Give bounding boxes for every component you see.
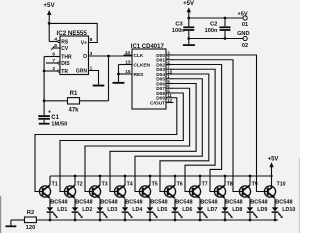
- LED LD9: [247, 207, 268, 218]
- svg-text:LD9: LD9: [257, 207, 267, 213]
- svg-text:2: 2: [52, 66, 55, 72]
- wire LD9 cathode to rail: [249, 213, 251, 220]
- junction LD9/rail: [249, 219, 252, 222]
- svg-text:R1: R1: [70, 91, 78, 97]
- svg-text:7: 7: [52, 58, 55, 64]
- ground (C1): [39, 123, 50, 125]
- pin 14 CLK: [124, 50, 144, 59]
- transistor T10 BC548: [264, 176, 292, 205]
- wire D07 to T3 base: [85, 88, 190, 191]
- wire T1 emitter to LED: [49, 198, 51, 207]
- transistor T8 BC548: [214, 176, 242, 205]
- wire LD7 cathode to rail: [199, 213, 201, 220]
- svg-text:LD6: LD6: [182, 207, 192, 213]
- junction LD4/rail: [124, 219, 127, 222]
- transistor T2 BC548: [64, 176, 92, 205]
- wire T10 emitter to LED: [274, 198, 276, 207]
- wire D04 to T6 base: [160, 74, 209, 192]
- svg-text:BC548: BC548: [75, 199, 92, 205]
- svg-text:LD1: LD1: [57, 207, 67, 213]
- svg-text:120: 120: [26, 225, 36, 231]
- wire CLKEN/RES to ground: [118, 65, 120, 82]
- LED LD1: [47, 207, 68, 218]
- svg-text:RS: RS: [61, 39, 69, 45]
- pin 4 RS: [54, 37, 69, 46]
- wire D01 to T9 base: [174, 60, 243, 192]
- pin 3 D00: [156, 50, 173, 59]
- svg-text:BC548: BC548: [150, 199, 167, 205]
- pin 4 D02: [156, 60, 173, 69]
- svg-text:100n: 100n: [205, 28, 218, 34]
- wire LD1 cathode to rail: [49, 213, 51, 220]
- resistor R1 47k: [44, 91, 108, 114]
- wire +5V down to RS pin4: [49, 23, 58, 41]
- wire timing node vertical: [43, 57, 45, 116]
- svg-text:+5V: +5V: [183, 1, 194, 7]
- svg-text:3: 3: [90, 51, 93, 57]
- svg-text:BC548: BC548: [50, 199, 67, 205]
- wire +5V collector rail: [50, 175, 272, 177]
- wire T3 emitter to LED: [99, 198, 101, 207]
- LED LD8: [222, 207, 243, 218]
- junction T8 collector: [224, 175, 227, 178]
- svg-text:C2: C2: [210, 22, 217, 28]
- svg-text:LD7: LD7: [207, 207, 217, 213]
- ground (R2): [6, 220, 17, 227]
- pin 1 GRN: [76, 66, 99, 85]
- pin 6 THR: [44, 52, 72, 61]
- wire T9 emitter to LED: [249, 198, 251, 207]
- junction T9 collector: [249, 175, 252, 178]
- svg-text:V+: V+: [81, 41, 87, 47]
- connector O2 GND: [237, 31, 249, 49]
- transistor T7 BC548: [189, 176, 217, 205]
- svg-text:5: 5: [54, 43, 57, 49]
- pin 7 DIS: [46, 58, 70, 67]
- scan artifact left edge: [0, 196, 2, 233]
- junction rail/C3: [187, 17, 190, 20]
- pin 6 D07: [156, 84, 173, 93]
- svg-text:LD3: LD3: [107, 207, 117, 213]
- svg-text:TR: TR: [61, 69, 68, 75]
- pin 7 D03: [156, 65, 173, 74]
- svg-text:LD10: LD10: [282, 207, 295, 213]
- pin 15 RES: [119, 69, 145, 78]
- junction T6 collector: [174, 175, 177, 178]
- transistor T3 BC548: [89, 176, 117, 205]
- wire +5V rail to O1: [189, 17, 243, 19]
- svg-text:8: 8: [90, 37, 93, 43]
- wire LD6 cathode to rail: [174, 213, 176, 220]
- svg-text:LD2: LD2: [82, 207, 92, 213]
- svg-text:+5V: +5V: [268, 156, 279, 162]
- power +5V (right): [268, 156, 279, 176]
- junction LD3/rail: [99, 219, 102, 222]
- junction R1 node: [43, 99, 46, 102]
- transistor T4 BC548: [114, 176, 142, 205]
- svg-text:LD4: LD4: [132, 207, 142, 213]
- svg-text:100n: 100n: [172, 28, 185, 34]
- svg-text:CV: CV: [61, 46, 69, 52]
- wire +5V to V+ pin8: [49, 23, 97, 42]
- power +5V (top left): [43, 2, 55, 23]
- pin 10 D04: [156, 69, 173, 78]
- transistor T9 BC548: [239, 176, 267, 205]
- pin 5 CV (open, slash mark): [51, 43, 69, 52]
- svg-text:C1: C1: [51, 115, 59, 121]
- junction T2 collector: [74, 175, 77, 178]
- svg-text:02: 02: [242, 43, 248, 49]
- junction rail/C3 bottom: [187, 37, 190, 40]
- svg-text:12: 12: [167, 98, 172, 103]
- LED LD10: [272, 207, 296, 218]
- wire LD10 cathode to rail: [274, 213, 276, 220]
- junction output/R1/CLK: [107, 55, 110, 58]
- wire R1 to output pin3: [108, 56, 110, 101]
- svg-text:T1: T1: [52, 181, 58, 187]
- svg-text:T4: T4: [127, 181, 133, 187]
- wire T5 emitter to LED: [149, 198, 151, 207]
- wire LD3 cathode to rail: [99, 213, 101, 220]
- svg-text:BC548: BC548: [200, 199, 217, 205]
- junction LD2/rail: [74, 219, 77, 222]
- junction rail/C2 bottom: [224, 37, 227, 40]
- svg-text:15: 15: [125, 69, 131, 74]
- svg-text:O: O: [83, 54, 87, 60]
- junction LD6/rail: [174, 219, 177, 222]
- junction +5V node: [48, 22, 51, 25]
- pin 8 V+: [81, 37, 93, 46]
- LED LD2: [72, 207, 93, 218]
- LED LD5: [147, 207, 168, 218]
- wire T7 emitter to LED: [199, 198, 201, 207]
- svg-text:4: 4: [54, 37, 57, 43]
- wire D02 to T8 base: [174, 65, 222, 192]
- wire T8 emitter to LED: [224, 198, 226, 207]
- LED LD7: [197, 207, 218, 218]
- svg-text:01: 01: [242, 22, 248, 28]
- transistor T5 BC548: [139, 176, 167, 205]
- wire LD2 cathode to rail: [74, 213, 76, 220]
- junction LD5/rail: [149, 219, 152, 222]
- ground (4017 enable/reset): [113, 82, 125, 84]
- wire T4 emitter to LED: [124, 198, 126, 207]
- wire LD4 cathode to rail: [124, 213, 126, 220]
- wire D03 to T7 base: [174, 69, 216, 191]
- LED LD3: [97, 207, 118, 218]
- wire T2 emitter to LED: [74, 198, 76, 207]
- svg-text:C3: C3: [175, 22, 183, 28]
- svg-text:THR: THR: [61, 54, 72, 60]
- svg-text:T9: T9: [252, 181, 258, 187]
- svg-text:T2: T2: [77, 181, 83, 187]
- junction T4 collector: [124, 175, 127, 178]
- pin 12 C/OUT: [150, 98, 173, 107]
- svg-text:GND: GND: [237, 31, 249, 37]
- svg-text:T6: T6: [177, 181, 183, 187]
- svg-text:GRN: GRN: [76, 69, 88, 75]
- svg-text:T3: T3: [102, 181, 108, 187]
- power +5V (top middle): [183, 1, 194, 26]
- svg-text:LD5: LD5: [157, 207, 167, 213]
- transistor T6 BC548: [164, 176, 192, 205]
- wire GND rail to O2: [189, 38, 243, 40]
- svg-text:BC548: BC548: [275, 199, 292, 205]
- LED LD4: [122, 207, 143, 218]
- resistor R2 120: [11, 210, 37, 231]
- ground (C3): [183, 44, 195, 46]
- svg-text:C/OUT: C/OUT: [150, 100, 165, 106]
- ground (555 pin1): [93, 85, 105, 87]
- svg-text:CLK: CLK: [134, 53, 144, 59]
- LED LD6: [172, 207, 193, 218]
- junction T3 collector: [99, 175, 102, 178]
- wire D00 to T10 base: [174, 55, 268, 192]
- svg-text:CLKEN: CLKEN: [134, 62, 151, 68]
- svg-text:+5V: +5V: [43, 2, 55, 9]
- op IC2 NE555 body: [57, 30, 89, 75]
- transistor T1 BC548: [39, 176, 67, 205]
- wire D08 to T2 base: [60, 93, 183, 192]
- capacitor C1 1M/50 electrolytic: [38, 110, 67, 128]
- svg-text:RES: RES: [134, 72, 145, 78]
- capacitor C2 100n: [205, 18, 231, 39]
- wire D05 to T5 base: [135, 79, 202, 192]
- junction T7 collector: [199, 175, 202, 178]
- connector O1 +5V: [237, 11, 248, 28]
- pin 9 D08: [156, 88, 173, 97]
- scan artifact right edge: [298, 158, 300, 233]
- pin 2 TR: [44, 66, 68, 75]
- wire D09 to T1 base: [35, 98, 177, 192]
- svg-text:BC548: BC548: [250, 199, 267, 205]
- svg-text:BC548: BC548: [125, 199, 142, 205]
- svg-text:T8: T8: [227, 181, 233, 187]
- junction CLKEN/RES: [117, 73, 120, 76]
- svg-text:T7: T7: [202, 181, 208, 187]
- junction LD1/rail: [49, 219, 52, 222]
- junction rail/C2 top: [224, 17, 227, 20]
- capacitor C3 100n: [172, 22, 194, 45]
- pin 2 D01: [156, 55, 173, 64]
- junction T5 collector: [149, 175, 152, 178]
- svg-text:1M/50: 1M/50: [51, 122, 67, 128]
- junction LD10/rail: [274, 219, 277, 222]
- junction LD7/rail: [199, 219, 202, 222]
- junction +5V rail tap: [270, 175, 272, 177]
- wire LD8 cathode to rail: [224, 213, 226, 220]
- svg-text:LD8: LD8: [232, 207, 242, 213]
- svg-text:14: 14: [125, 50, 131, 55]
- wire LD5 cathode to rail: [149, 213, 151, 220]
- svg-text:BC548: BC548: [100, 199, 117, 205]
- svg-text:47k: 47k: [68, 108, 79, 114]
- op IC1 CD4017 body: [131, 44, 166, 109]
- svg-text:R2: R2: [27, 210, 34, 216]
- wire LED common cathode rail: [36, 219, 278, 221]
- svg-text:BC548: BC548: [225, 199, 242, 205]
- svg-text:T5: T5: [152, 181, 158, 187]
- pin 1 D05: [156, 74, 173, 83]
- svg-text:BC548: BC548: [175, 199, 192, 205]
- svg-text:6: 6: [52, 52, 55, 58]
- wire D06 to T4 base: [110, 84, 196, 192]
- pin 5 D06: [156, 79, 173, 88]
- junction LD8/rail: [224, 219, 227, 222]
- pin 3 O output: [83, 51, 132, 60]
- svg-text:DIS: DIS: [61, 61, 70, 67]
- svg-text:T10: T10: [277, 181, 286, 187]
- svg-text:1: 1: [90, 66, 93, 72]
- junction TR node: [43, 70, 46, 73]
- svg-text:13: 13: [125, 60, 131, 65]
- pin 11 D09: [156, 93, 173, 102]
- pin 13 CLKEN: [119, 60, 151, 69]
- wire T6 emitter to LED: [174, 198, 176, 207]
